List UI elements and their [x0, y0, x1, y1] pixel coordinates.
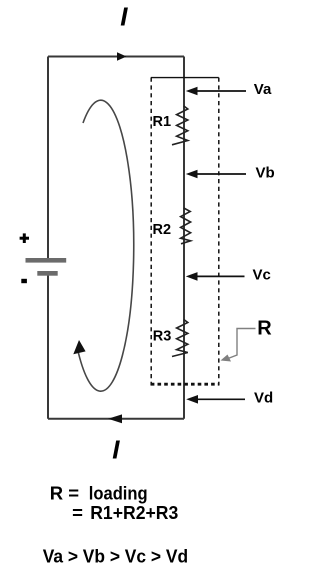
battery + label — [20, 233, 29, 243]
wire left lower (from battery -) — [47, 276, 49, 419]
battery V1 positive plate — [26, 258, 67, 263]
wire left upper (to battery +) — [47, 57, 49, 259]
wire right (loop) — [183, 57, 185, 419]
node Vb arrow — [197, 173, 246, 175]
svg-text:R1: R1 — [153, 114, 172, 130]
svg-text:I: I — [120, 2, 128, 32]
wire bottom (loop) — [48, 418, 184, 420]
resistor R3 zigzag — [172, 320, 188, 357]
resistor R1 zigzag — [172, 106, 188, 145]
svg-text:R: R — [257, 318, 272, 340]
svg-text:Va: Va — [254, 81, 272, 98]
node Vc arrow — [197, 275, 245, 277]
svg-text:R3: R3 — [153, 328, 172, 344]
equation line 2: = R1+R2+R3 — [72, 502, 178, 523]
svg-text:R =: R = — [50, 482, 80, 503]
svg-text:I: I — [112, 434, 120, 464]
svg-text:=: = — [72, 502, 83, 523]
R callout pointer — [228, 329, 256, 359]
svg-text:R1+R2+R3: R1+R2+R3 — [90, 502, 178, 523]
dashed box bottom edge — [151, 383, 219, 386]
current arrow on top wire — [117, 52, 127, 61]
dashed box left edge — [150, 78, 152, 386]
svg-text:Vb: Vb — [256, 164, 275, 181]
dashed box R (loading network boundary) top edge — [151, 77, 219, 79]
current loop arc arrow — [78, 100, 134, 391]
current arrow on bottom wire — [108, 414, 122, 423]
svg-text:Va > Vb > Vc > Vd: Va > Vb > Vc > Vd — [43, 546, 188, 567]
dashed box right edge — [218, 78, 220, 386]
wire top (loop) — [48, 56, 184, 58]
svg-text:Vc: Vc — [253, 267, 271, 284]
battery V1 negative plate — [37, 271, 57, 276]
svg-text:Vd: Vd — [254, 389, 273, 406]
resistor R2 zigzag — [181, 208, 191, 244]
node Vd arrow — [198, 398, 246, 400]
svg-text:R2: R2 — [153, 222, 172, 238]
equation line 1: R = loading — [50, 482, 148, 503]
svg-text:loading: loading — [89, 482, 148, 503]
node Va arrow — [197, 90, 246, 92]
battery - label — [21, 279, 27, 283]
